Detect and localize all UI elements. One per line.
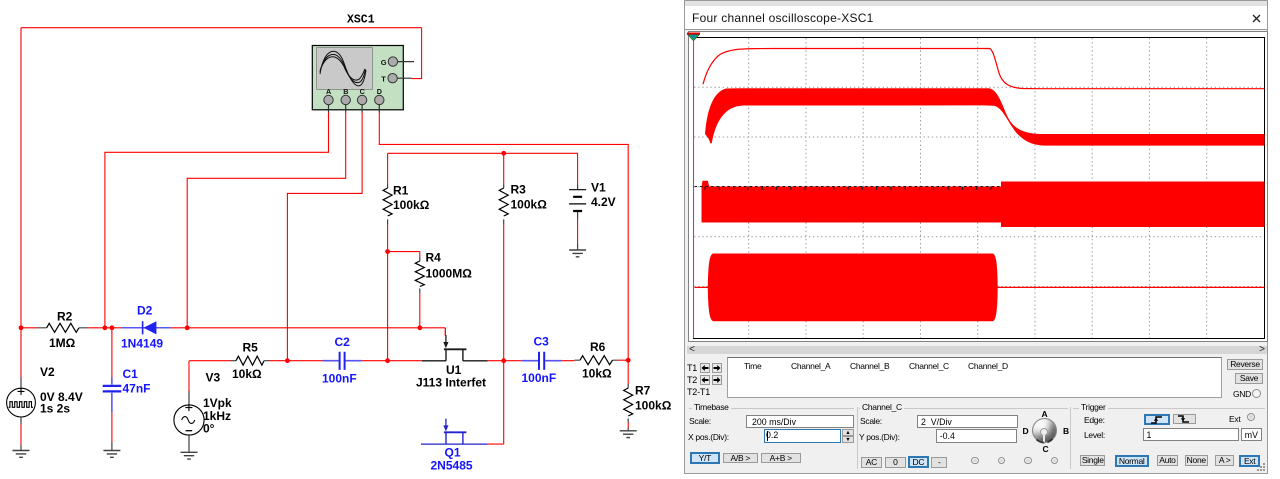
Trigger group [1079, 402, 1108, 412]
svg-text:R6: R6 [590, 340, 606, 354]
group separators [857, 407, 858, 469]
svg-text:R4: R4 [426, 251, 442, 265]
resize grip [1257, 463, 1266, 472]
wire R7 leads [627, 360, 629, 427]
wire scope B to diode rail [187, 113, 346, 328]
svg-text:1MΩ: 1MΩ [49, 336, 76, 350]
svg-text:R3: R3 [511, 183, 527, 197]
wire V3 stem [188, 361, 190, 391]
wire main rail segments [21, 328, 445, 336]
wire scope C to R5 node [287, 113, 362, 361]
svg-text:D2: D2 [137, 304, 153, 318]
svg-text:XSC1: XSC1 [347, 14, 375, 27]
svg-text:V1: V1 [591, 181, 606, 195]
svg-text:1s 2s: 1s 2s [40, 402, 70, 416]
resistor R5 [231, 341, 271, 382]
T1/T2 box [687, 357, 728, 398]
wire trigger drop [412, 28, 422, 79]
battery V1 [569, 181, 616, 220]
right buttons [1227, 359, 1263, 370]
svg-text:100kΩ: 100kΩ [635, 399, 672, 413]
svg-text:100kΩ: 100kΩ [393, 198, 430, 212]
svg-text:G: G [381, 58, 387, 67]
wire scope A to node R2 [105, 113, 329, 328]
svg-text:Q1: Q1 [445, 446, 461, 460]
resistor R2 [38, 310, 89, 351]
wire C1 leads [111, 328, 113, 442]
svg-text:100nF: 100nF [522, 371, 557, 385]
svg-text:C3: C3 [534, 335, 550, 349]
wire supply top rail [388, 152, 578, 154]
svg-text:C: C [360, 87, 365, 96]
JFET U1 [416, 328, 488, 390]
T1 marker triangle [687, 32, 703, 42]
channel C trace band [702, 181, 710, 187]
Timebase group [692, 402, 731, 412]
oscilloscope window title bar [685, 6, 1267, 30]
oscilloscope display [688, 31, 1268, 342]
svg-text:T: T [381, 74, 386, 83]
channel B trace band [705, 88, 1265, 145]
resistor R1 [383, 184, 430, 225]
svg-text:C2: C2 [335, 335, 351, 349]
wire R1 branch [387, 153, 389, 360]
svg-text:R2: R2 [57, 310, 73, 324]
capacitor C1 [103, 367, 151, 412]
ground (C1) [103, 442, 120, 457]
wire R3 branch down to Q1 [488, 153, 504, 444]
svg-text:100nF: 100nF [322, 372, 357, 386]
ground (R7) [620, 428, 637, 438]
svg-text:1N4149: 1N4149 [121, 337, 163, 351]
svg-text:1Vpk: 1Vpk [203, 396, 232, 410]
wire V2 plus to top-left riser [20, 28, 22, 378]
svg-text:10kΩ: 10kΩ [582, 367, 612, 381]
svg-text:J113 Interfet: J113 Interfet [416, 376, 486, 390]
wire source rail segments [189, 359, 628, 362]
Channel_C group [860, 402, 904, 412]
scrollbar [687, 346, 1267, 354]
svg-text:C1: C1 [123, 367, 139, 381]
readout list [727, 357, 1222, 398]
pulse source V2 [7, 365, 83, 424]
capacitor C3 [522, 335, 562, 386]
svg-text:100kΩ: 100kΩ [511, 198, 548, 212]
svg-text:0°: 0° [203, 422, 215, 436]
svg-text:R5: R5 [243, 341, 259, 355]
svg-text:V2: V2 [40, 365, 55, 379]
svg-text:R1: R1 [393, 184, 409, 198]
svg-text:R7: R7 [635, 384, 651, 398]
svg-text:V3: V3 [206, 371, 221, 385]
wire scope D to output node [379, 113, 628, 361]
ground (V3) [181, 449, 198, 460]
svg-text:1000MΩ: 1000MΩ [426, 267, 473, 281]
channel D trace [695, 286, 1265, 288]
diode D2 1N4149 [121, 304, 171, 351]
junction dots [19, 151, 631, 363]
ground (V1) [569, 244, 586, 257]
svg-text:4.2V: 4.2V [591, 195, 616, 209]
svg-text:A: A [326, 87, 331, 96]
sine source V3 [174, 371, 232, 449]
resistor R4 [415, 251, 472, 294]
JFET Q1 2N5485 [421, 419, 488, 473]
channel A trace [703, 49, 1265, 89]
channel selector knob [1032, 418, 1057, 443]
capacitor C2 [322, 335, 362, 386]
ground (V2) [13, 445, 30, 457]
instrument label XSC1 [347, 14, 375, 27]
svg-text:B: B [343, 87, 348, 96]
wire R1-R4 link [388, 252, 420, 328]
resistor R7 [624, 384, 672, 423]
resistor R3 [499, 183, 547, 225]
wire V1 leads [577, 153, 579, 244]
svg-text:2N5485: 2N5485 [431, 459, 473, 473]
svg-text:47nF: 47nF [123, 382, 151, 396]
T1 cursor [692, 38, 694, 338]
resistor R6 [575, 340, 618, 381]
wire V2 bottom [20, 424, 22, 445]
svg-text:10kΩ: 10kΩ [232, 367, 262, 381]
oscilloscope XSC1 icon [312, 46, 414, 113]
wire top horizontal run to scope trigger [21, 27, 422, 29]
svg-text:D: D [377, 87, 382, 96]
